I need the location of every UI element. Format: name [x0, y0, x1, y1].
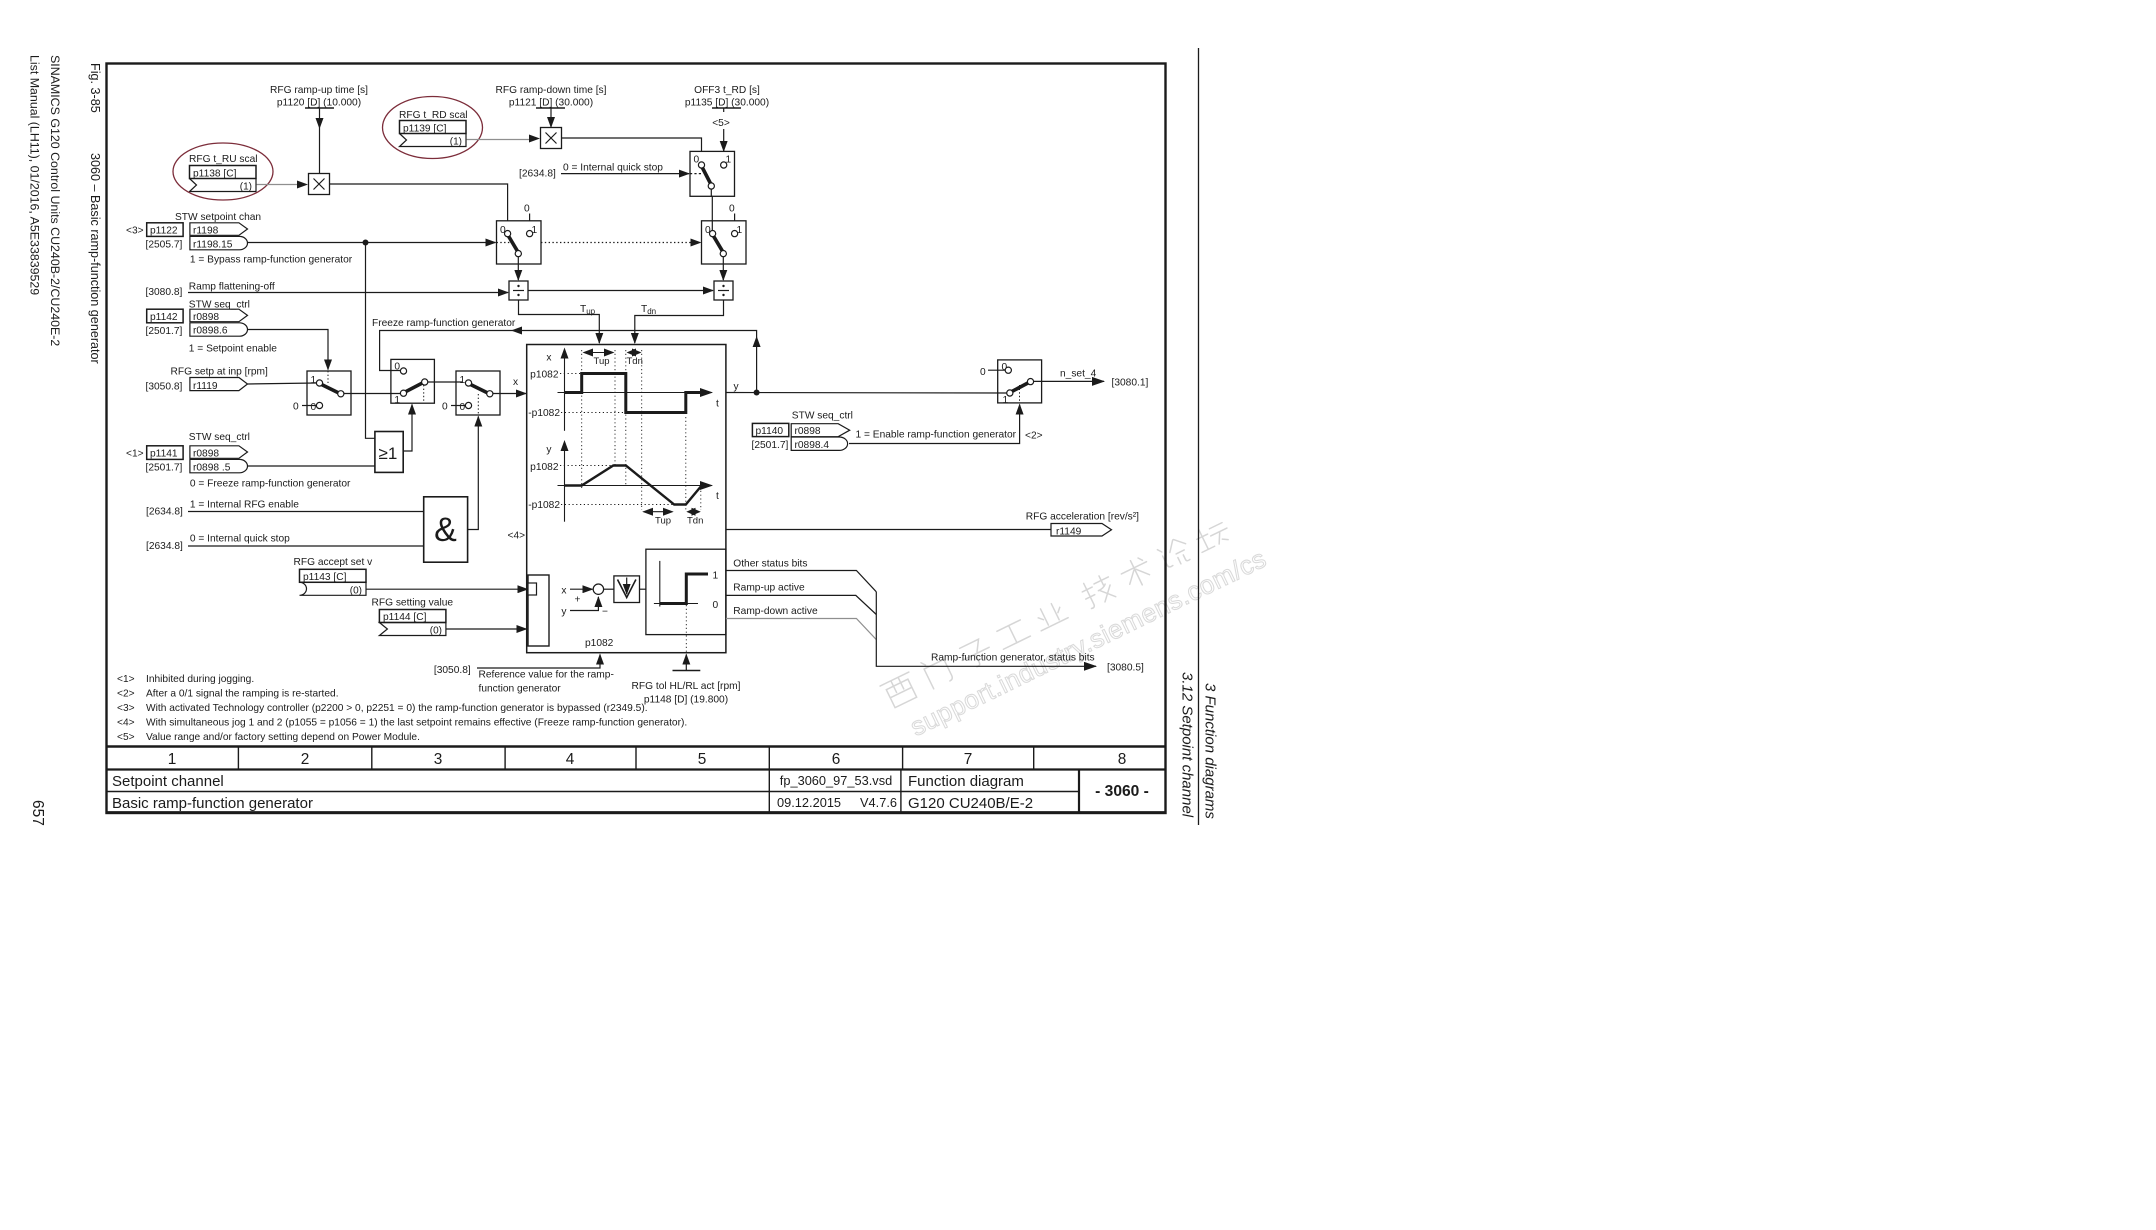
wire internal RFG enable to AND: [188, 511, 423, 513]
label RFG tol HL/RL: [632, 681, 741, 706]
p1120 T-bar: [305, 107, 334, 109]
svg-text:r0898: r0898: [795, 426, 821, 437]
svg-text:G120 CU240B/E-2: G120 CU240B/E-2: [908, 795, 1033, 812]
svg-text:r0898.6: r0898.6: [193, 326, 228, 337]
summing circle: [593, 584, 603, 594]
setting value block: [528, 575, 549, 646]
wire quick stop input: [561, 173, 689, 175]
svg-text:<3>: <3>: [126, 226, 144, 237]
svg-text:Ramp-up active: Ramp-up active: [733, 583, 805, 594]
svg-text:STW setpoint chan: STW setpoint chan: [175, 212, 261, 223]
freeze feedback arrowheads: [511, 327, 522, 335]
svg-text:p1082: p1082: [585, 638, 614, 649]
connector r0898.5: [190, 459, 248, 473]
svg-text:STW seq_ctrl: STW seq_ctrl: [189, 432, 250, 443]
svg-text:Tdn: Tdn: [627, 356, 643, 367]
AND gate: [424, 497, 468, 562]
graph 1 x axis: [558, 358, 713, 431]
svg-text:[2501.7]: [2501.7]: [146, 326, 183, 337]
svg-text:-p1082: -p1082: [528, 500, 560, 511]
svg-text:0: 0: [980, 367, 986, 378]
wire reference value into box: [477, 655, 600, 669]
parameter box p1142: [147, 309, 183, 323]
connector r0898 (p1140): [791, 424, 850, 438]
wire p1143 to setting block: [366, 588, 528, 590]
svg-text:Setpoint channel: Setpoint channel: [112, 773, 224, 790]
svg-text:p1142: p1142: [150, 312, 178, 323]
red ellipse around p1139: [383, 97, 483, 159]
svg-text:1 = Internal RFG enable: 1 = Internal RFG enable: [190, 500, 299, 511]
svg-text:5: 5: [698, 751, 707, 768]
svg-text:1: 1: [311, 375, 317, 386]
wire limiter to status box: [640, 588, 646, 590]
svg-text:r1198: r1198: [193, 226, 219, 237]
svg-text:- 3060 -: - 3060 -: [1095, 783, 1149, 800]
svg-text:STW seq_ctrl: STW seq_ctrl: [792, 411, 853, 422]
svg-text:List Manual (LH11), 01/2016, A: List Manual (LH11), 01/2016, A5E33839529: [28, 55, 42, 295]
label RFG ramp-up time: [270, 85, 368, 109]
svg-text:3 Function diagrams: 3 Function diagrams: [1202, 683, 1219, 819]
status step box: [646, 549, 726, 634]
wire n_set_4 out: [1034, 380, 1104, 382]
svg-text:1 = Enable ramp-function gener: 1 = Enable ramp-function generator: [856, 430, 1017, 441]
connector p1138: [190, 166, 257, 192]
wire AND out to S3 control: [468, 417, 479, 530]
wire ramp-down active (grey): [726, 619, 876, 640]
svg-text:With simultaneous jog 1 and 2: With simultaneous jog 1 and 2 (p1055 = p…: [146, 718, 687, 729]
svg-text:r0898.4: r0898.4: [795, 440, 830, 451]
connector r0898.6: [190, 323, 248, 337]
svg-text:0: 0: [293, 402, 299, 413]
wire r0898.5 to OR gate: [248, 465, 375, 467]
svg-text:[2505.7]: [2505.7]: [146, 240, 183, 251]
svg-text:[2634.8]: [2634.8]: [146, 507, 183, 518]
svg-text:RFG tol HL/RL act [rpm]: RFG tol HL/RL act [rpm]: [632, 681, 741, 692]
svg-text:0: 0: [713, 600, 719, 611]
connector p1144: [379, 610, 446, 636]
svg-text:&: &: [434, 511, 457, 549]
svg-text:657: 657: [29, 800, 46, 826]
OR gate >=1: [375, 432, 403, 473]
svg-text:Ramp-function generator, statu: Ramp-function generator, status bits: [931, 653, 1095, 664]
table zone numbers: [168, 751, 1127, 768]
svg-text:p1141: p1141: [150, 449, 178, 460]
status step graph: [654, 561, 708, 607]
wire OR out to S2 control: [403, 405, 412, 452]
svg-text:p1122: p1122: [150, 226, 178, 237]
svg-text:p1140: p1140: [756, 426, 784, 437]
Tup span arrow graph1: [584, 352, 613, 354]
label OFF3 t_RD: [685, 85, 769, 109]
wire ramp-up active: [726, 595, 876, 614]
svg-text:0 = Internal quick stop: 0 = Internal quick stop: [563, 163, 663, 174]
svg-text:1: 1: [713, 571, 719, 582]
svg-text:x: x: [561, 586, 566, 597]
svg-text:p1144 [C]: p1144 [C]: [383, 612, 427, 623]
connector r1198.15: [190, 236, 248, 250]
svg-text:With activated Technology cont: With activated Technology controller (p2…: [146, 703, 648, 714]
switch bypass B: [702, 204, 747, 265]
svg-text:[2501.7]: [2501.7]: [752, 440, 789, 451]
svg-text:Ramp flattening-off: Ramp flattening-off: [189, 282, 275, 293]
svg-text:Reference value for the ramp-: Reference value for the ramp-: [479, 670, 614, 681]
connector r0898 (p1141): [190, 446, 248, 460]
svg-text:r0898: r0898: [193, 312, 219, 323]
wire X1 out to bypass switch A: [330, 184, 508, 221]
svg-text:<2>: <2>: [117, 689, 135, 700]
svg-text:1 = Setpoint enable: 1 = Setpoint enable: [189, 344, 277, 355]
svg-text:Tup: Tup: [594, 356, 610, 367]
svg-text:fp_3060_97_53.vsd: fp_3060_97_53.vsd: [780, 773, 892, 788]
rate limiter block: [614, 576, 640, 603]
svg-text:0: 0: [524, 204, 530, 215]
svg-text:p1120 [D] (10.000): p1120 [D] (10.000): [277, 98, 361, 109]
svg-text:Inhibited during jogging.: Inhibited during jogging.: [146, 674, 254, 685]
wire bypass B out to divider B: [722, 257, 724, 280]
svg-text:RFG accept set v: RFG accept set v: [294, 557, 374, 568]
Tup span arrow graph2: [644, 511, 673, 513]
svg-text:RFG setting value: RFG setting value: [372, 598, 454, 609]
svg-text:RFG ramp-down time [s]: RFG ramp-down time [s]: [496, 85, 607, 96]
svg-text:Ramp-down active: Ramp-down active: [733, 606, 818, 617]
label RFG ramp-down time: [496, 85, 607, 109]
svg-text:r1149: r1149: [1056, 526, 1082, 537]
Tdn span arrow graph2: [688, 511, 700, 513]
svg-text:Other status bits: Other status bits: [733, 559, 807, 570]
svg-text:[3050.8]: [3050.8]: [434, 665, 471, 676]
connector r0898.4: [791, 437, 847, 451]
svg-text:<4>: <4>: [508, 531, 526, 542]
wire ramp flattening to divider A: [188, 292, 508, 294]
switch S2 freeze: [391, 359, 435, 406]
svg-text:<5>: <5>: [712, 118, 730, 129]
svg-text:p1138 [C]: p1138 [C]: [193, 168, 237, 179]
svg-text:<1>: <1>: [117, 674, 135, 685]
wire QS out to bypass switch B: [711, 189, 712, 230]
junction y output: [754, 390, 760, 396]
svg-text:r1119: r1119: [193, 381, 218, 392]
wire r1198.15 to bypass A: [248, 242, 496, 244]
page frame: [107, 64, 1166, 814]
svg-text:+: +: [575, 595, 581, 606]
svg-text:<1>: <1>: [126, 449, 144, 460]
svg-text:Tup: Tup: [655, 516, 671, 527]
svg-text:RFG acceleration [rev/s²]: RFG acceleration [rev/s²]: [1026, 512, 1139, 523]
svg-text:0: 0: [460, 402, 466, 413]
wire p1148 up into box: [685, 655, 687, 671]
dotted tolerance line: [685, 605, 687, 652]
divider block A: [509, 281, 528, 300]
svg-text:<2>: <2>: [1025, 431, 1043, 442]
p1148 T-bar input: [673, 670, 701, 672]
svg-text:t: t: [716, 491, 719, 502]
svg-text:RFG setp at inp [rpm]: RFG setp at inp [rpm]: [171, 367, 269, 378]
wire p1138 to X1 (grey): [257, 184, 298, 186]
connector r1198: [190, 223, 248, 237]
Tdn span arrow graph1: [628, 352, 640, 354]
connector p1143: [300, 569, 367, 595]
svg-text:RFG t_RD scal: RFG t_RD scal: [399, 110, 468, 121]
svg-text:<5>: <5>: [117, 732, 135, 743]
wire status bus collector: [876, 592, 1096, 667]
wire divider A to divider B: [528, 290, 713, 292]
svg-text:p1143 [C]: p1143 [C]: [303, 572, 347, 583]
graph 2 axes: [558, 450, 713, 522]
svg-text:p1139 [C]: p1139 [C]: [403, 123, 447, 134]
wire p1120 down: [319, 108, 321, 173]
multiplier X2: [541, 128, 562, 149]
graph 2 ramp curve: [565, 466, 710, 505]
svg-text:1: 1: [394, 395, 400, 406]
p1121 T-bar: [536, 107, 565, 109]
svg-text:-p1082: -p1082: [528, 408, 560, 419]
connector r1119: [190, 378, 248, 393]
svg-text:0: 0: [442, 402, 448, 413]
svg-text:Value range and/or factory set: Value range and/or factory setting depen…: [146, 732, 420, 743]
svg-text:Fig. 3-85: Fig. 3-85: [88, 63, 102, 113]
svg-text:t: t: [716, 399, 719, 410]
header rule (rotated page header divider): [1198, 48, 1200, 825]
svg-text:x: x: [513, 377, 518, 388]
RFG main block: [527, 345, 726, 653]
junction bypass: [363, 240, 369, 246]
switch S4 output: [998, 360, 1042, 406]
svg-text:RFG t_RU scal: RFG t_RU scal: [189, 154, 258, 165]
svg-text:≥1: ≥1: [379, 444, 398, 463]
wire S3 out to big box: [493, 393, 526, 395]
svg-text:0 = Freeze ramp-function gener: 0 = Freeze ramp-function generator: [190, 479, 351, 490]
svg-text:3: 3: [434, 751, 443, 768]
multiplier X1: [309, 174, 330, 195]
svg-text:p1121 [D] (30.000): p1121 [D] (30.000): [509, 98, 593, 109]
svg-text:1 = Bypass ramp-function gener: 1 = Bypass ramp-function generator: [190, 255, 353, 266]
parameter box p1140: [752, 423, 788, 437]
svg-text:Basic ramp-function generator: Basic ramp-function generator: [112, 795, 313, 812]
svg-text:Freeze ramp-function generator: Freeze ramp-function generator: [372, 318, 516, 329]
wire junction down to OR gate: [366, 243, 375, 439]
svg-text:[3080.8]: [3080.8]: [146, 287, 183, 298]
svg-text:(0): (0): [350, 586, 362, 597]
svg-text:3.12 Setpoint channel: 3.12 Setpoint channel: [1179, 672, 1196, 818]
svg-text:After a 0/1 signal the ramping: After a 0/1 signal the ramping is re-sta…: [146, 689, 339, 700]
wire divider B to big box (Tdn): [635, 300, 724, 343]
svg-text:<4>: <4>: [117, 718, 135, 729]
svg-text:−: −: [602, 607, 608, 618]
svg-text:1: 1: [168, 751, 177, 768]
wire p1121 down: [550, 108, 552, 127]
graph dotted verticals: [582, 350, 701, 510]
svg-text:OFF3 t_RD [s]: OFF3 t_RD [s]: [694, 85, 760, 96]
svg-text:0 = Internal quick stop: 0 = Internal quick stop: [190, 534, 290, 545]
title block table: [107, 747, 1166, 813]
svg-text:7: 7: [964, 751, 973, 768]
wire r0898.6 to switch S1 control: [248, 330, 328, 370]
svg-text:4: 4: [566, 751, 575, 768]
graph 1 square wave: [565, 374, 710, 413]
graph 2 dotted levels: [560, 466, 674, 505]
svg-text:8: 8: [1118, 751, 1127, 768]
svg-text:p1082: p1082: [530, 462, 559, 473]
connector r0898 (p1142): [190, 309, 248, 323]
wire p1135 down: [723, 108, 725, 151]
svg-text:r0898: r0898: [193, 449, 219, 460]
svg-text:6: 6: [832, 751, 841, 768]
svg-text:[2634.8]: [2634.8]: [146, 541, 183, 552]
wire summing to limiter: [604, 588, 614, 590]
svg-text:Function diagram: Function diagram: [908, 773, 1024, 790]
svg-text:SINAMICS G120 Control Units CU: SINAMICS G120 Control Units CU240B-2/CU2…: [48, 55, 62, 346]
svg-text:p1082: p1082: [530, 370, 559, 381]
svg-text:1: 1: [1003, 395, 1009, 406]
setting accept notch: [528, 583, 537, 595]
parameter box p1141: [147, 446, 183, 460]
svg-text:Tdn: Tdn: [687, 516, 703, 527]
wire r0898.4 to S4 control: [849, 405, 1020, 444]
svg-text:[2501.7]: [2501.7]: [146, 463, 183, 474]
svg-text:0: 0: [729, 204, 735, 215]
svg-text:RFG ramp-up time [s]: RFG ramp-up time [s]: [270, 85, 368, 96]
wire bypass A out to divider A: [517, 257, 519, 280]
wire S2 out to S3: [428, 381, 462, 383]
svg-text:2: 2: [301, 751, 310, 768]
svg-text:(1): (1): [450, 137, 462, 148]
svg-text:n_set_4: n_set_4: [1060, 369, 1097, 380]
svg-text:<3>: <3>: [117, 703, 135, 714]
watermark (decorative): [879, 507, 1271, 746]
svg-text:[3080.1]: [3080.1]: [1112, 378, 1149, 389]
svg-text:1: 1: [460, 375, 466, 386]
svg-text:3060 – Basic ramp-function gen: 3060 – Basic ramp-function generator: [88, 153, 102, 364]
svg-text:V4.7.6: V4.7.6: [860, 795, 897, 810]
parameter box p1122: [147, 223, 183, 237]
switch S1 setpoint enable: [307, 371, 351, 415]
wire x to summing: [570, 588, 593, 590]
svg-text:r1198.15: r1198.15: [193, 239, 233, 250]
wire X2 out to quick stop switch: [562, 138, 702, 151]
svg-text:r0898 .5: r0898 .5: [193, 462, 231, 473]
svg-text:[3080.5]: [3080.5]: [1107, 663, 1144, 674]
wire p1139 to X2 (grey): [467, 139, 530, 141]
dotted wire bypass A to bypass B: [541, 242, 701, 244]
wire p1144 to setting block: [446, 628, 527, 630]
svg-text:x: x: [546, 353, 551, 364]
wire divider A to big box (Tup): [519, 300, 600, 343]
svg-text:0: 0: [311, 402, 317, 413]
wire acceleration out: [726, 529, 1051, 531]
divider block B: [714, 281, 733, 300]
svg-text:p1135 [D] (30.000): p1135 [D] (30.000): [685, 98, 769, 109]
svg-text:function generator: function generator: [479, 684, 562, 695]
wire internal quick stop to AND: [188, 545, 423, 547]
red ellipse around p1138: [173, 143, 273, 200]
svg-text:p1148 [D] (19.800): p1148 [D] (19.800): [644, 695, 728, 706]
svg-text:[2634.8]: [2634.8]: [519, 169, 556, 180]
svg-text:(1): (1): [240, 182, 252, 193]
wire y to summing: [570, 597, 598, 611]
switch S3 internal enable: [456, 371, 500, 415]
wire y output to S4: [726, 392, 1007, 395]
wire S1 out to S2: [344, 393, 400, 395]
connector p1139: [400, 121, 467, 147]
svg-text:09.12.2015: 09.12.2015: [777, 795, 841, 810]
wire other status bits: [726, 571, 876, 592]
graph 1 dotted levels: [560, 374, 626, 413]
wire r1119 to S1: [248, 383, 316, 384]
p1135 T-bar: [712, 107, 741, 109]
svg-text:(0): (0): [430, 626, 442, 637]
connector r1149: [1051, 524, 1112, 538]
switch bypass A: [497, 204, 542, 265]
freeze feedback wire: [380, 331, 757, 393]
switch QS internal quick stop: [690, 151, 735, 196]
svg-text:[3050.8]: [3050.8]: [146, 382, 183, 393]
